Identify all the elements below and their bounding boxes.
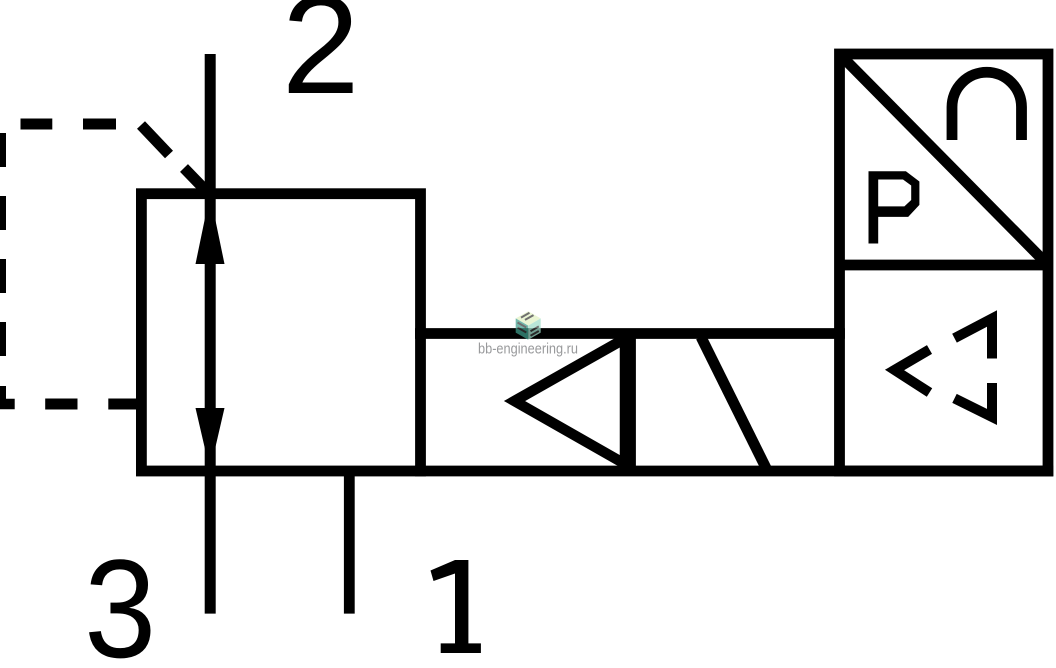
- filter dashed triangle bottom right: [955, 383, 993, 417]
- watermark cube: [516, 311, 541, 340]
- pilot dashed line top horizontal: [21, 119, 117, 130]
- pilot dashed line left vertical: [0, 133, 6, 356]
- svg-text:3: 3: [84, 530, 156, 668]
- exhaust box divider: [840, 260, 1049, 271]
- filter dashed triangle top right: [955, 319, 993, 359]
- regulator arrow down: [196, 408, 225, 471]
- regulator vertical line: [205, 54, 216, 614]
- check valve triangle: [515, 339, 626, 465]
- throttle diagonal: [701, 337, 767, 470]
- pilot dashed line bottom corner: [0, 386, 15, 409]
- valve band bottom edge: [415, 466, 1053, 477]
- regulator body box: [141, 194, 420, 471]
- valve band divider: [625, 334, 636, 472]
- port label 1: [431, 560, 481, 653]
- port 1 line: [344, 471, 355, 614]
- filter dashed triangle apex: [895, 350, 930, 393]
- svg-text:2: 2: [282, 0, 360, 123]
- pilot dashed line diagonal: [141, 125, 213, 198]
- regulator arrow up: [196, 194, 225, 264]
- letter P: [869, 171, 920, 243]
- exhaust box diagonal: [840, 54, 1049, 265]
- exhaust box frame: [840, 54, 1049, 471]
- valve band top edge: [415, 328, 845, 339]
- pilot dashed line bottom horizontal: [45, 399, 138, 410]
- svg-text:bb-engineering.ru: bb-engineering.ru: [478, 340, 578, 357]
- arch symbol: [952, 72, 1022, 140]
